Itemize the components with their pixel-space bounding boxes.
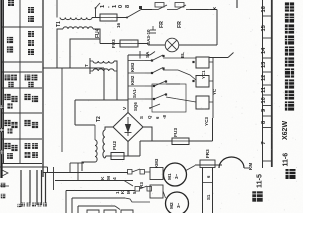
- table cell text col2 row4 (feed): [25, 75, 38, 88]
- label YC1: [201, 70, 206, 79]
- wire YC right bus: [209, 58, 213, 118]
- wire coil2 step to FU1: [99, 39, 101, 44]
- label SQ6-8: [139, 115, 167, 119]
- clutch YC2: [196, 76, 209, 88]
- scan noise: [45, 1, 297, 211]
- fuse FU3: [168, 138, 194, 145]
- SQ column crossbar: [203, 182, 213, 184]
- socket XS marks: [150, 26, 156, 33]
- wire rail y100: [75, 99, 128, 101]
- clutch YC1: [196, 57, 209, 68]
- label KM3 rung1: [130, 62, 135, 72]
- label KM5: [115, 190, 137, 194]
- transformer T2 vertical primary: [95, 125, 97, 162]
- thermal contact FR2: [173, 3, 190, 10]
- table cell text col1 row4 (worktable): [5, 75, 17, 88]
- transformer T1 primary winding: [60, 18, 92, 20]
- fuse FU4: [96, 14, 121, 21]
- wire cam right: [244, 167, 250, 169]
- table cell text col1 row1: [8, 0, 14, 6]
- table cell text col1 row5: [4, 94, 17, 109]
- label R3: [139, 182, 144, 188]
- left edge cut chars: [0, 105, 4, 154]
- table cell text col2 row6: [24, 120, 38, 128]
- label EL: [180, 52, 185, 58]
- wire phase drop 4: [41, 170, 43, 205]
- branch1 link wires: [124, 172, 164, 186]
- label FR3: [205, 149, 210, 158]
- wire FR2 to right corner: [190, 9, 217, 11]
- wire SA3 to FR contacts: [141, 9, 152, 11]
- page left border: [0, 0, 2, 178]
- thermal element FR3 box: [185, 160, 222, 171]
- wire ladder rung1: [128, 60, 145, 62]
- wire bridge top lead: [127, 100, 129, 113]
- label FU2: [112, 141, 118, 150]
- caption figure 11-5: [252, 174, 263, 202]
- label T2a: [84, 64, 89, 67]
- contactor box KM5: [150, 185, 163, 198]
- wire phase drop 1: [20, 170, 22, 207]
- lamp EL: [165, 38, 179, 52]
- transformer T2 vertical secondary: [103, 130, 105, 158]
- wire bottom rail 2: [43, 172, 128, 174]
- wire bottom rail step: [47, 167, 49, 173]
- label FR2: [177, 21, 183, 28]
- fuse FU1: [116, 40, 142, 47]
- wire main left bus: [42, 0, 44, 177]
- wire right drop to lamp row: [216, 10, 218, 46]
- label SQ6 rung4: [133, 102, 138, 111]
- wire T2b secondary bottom lead: [105, 156, 111, 158]
- label KM4: [100, 176, 118, 180]
- transformer T2 primary winding: [90, 61, 114, 63]
- table cell text col1 row6 (spindle): [4, 120, 17, 134]
- column numbers 16-7: [261, 6, 267, 144]
- wire phase stub 6: [53, 167, 55, 190]
- rectifier bridge VC: [113, 113, 143, 142]
- label FR1: [159, 21, 165, 28]
- label YC3: [204, 117, 209, 126]
- wire winding lead corners: [70, 163, 84, 181]
- contact KM3 rung1: [145, 55, 196, 61]
- contact KM5: [135, 186, 152, 191]
- wire bridge right lead: [143, 127, 152, 141]
- contact below SQ6: [149, 104, 160, 109]
- wire lamp row right: [179, 44, 217, 46]
- label 1-108 terminal: [100, 5, 131, 8]
- table cell text col2 row7 (feed): [25, 143, 38, 158]
- label S1 in column: [206, 194, 211, 200]
- contact terminal squares ladder: [151, 55, 195, 100]
- label T1: [56, 21, 62, 27]
- column strip verticals: [263, 0, 272, 168]
- label SA4: [145, 51, 150, 58]
- table cell text col2 row5 (speed): [24, 94, 38, 102]
- label 16: [116, 22, 121, 28]
- motor M2: [166, 192, 189, 215]
- column strip dividers: [263, 16, 272, 161]
- clutch YC3: [196, 96, 209, 109]
- label YC2: [212, 88, 217, 95]
- wire T2a right bus down: [114, 61, 117, 100]
- wire T1 to FU4: [92, 17, 100, 19]
- wire bottom rail 6: [78, 206, 120, 213]
- motor M1: [164, 163, 187, 186]
- wire ladder rung4: [128, 98, 145, 100]
- label KM2 rung2: [130, 75, 135, 85]
- wire x75 drop: [74, 100, 76, 125]
- wire x104 drop: [103, 68, 105, 100]
- wire SQ column right: [212, 168, 214, 214]
- wire ladder top arrow: [128, 51, 155, 59]
- wire T1 primary top lead: [56, 0, 58, 18]
- wire bottom rail 4: [66, 191, 135, 214]
- label SA at top right: [212, 6, 217, 10]
- caption figure 11-6 X62W: [282, 2, 295, 179]
- wire ladder rung2: [128, 72, 145, 74]
- wire bottom rail 5: [72, 198, 150, 213]
- wire T1 secondary right lead step: [70, 29, 100, 68]
- label T2: [96, 116, 102, 122]
- wire T2b left bottom lead: [82, 162, 95, 171]
- wire to FU1: [100, 43, 120, 45]
- label KM3 riser: [154, 158, 159, 168]
- wire phase drop 2: [29, 170, 31, 205]
- wire phase drop 5: [45, 173, 47, 206]
- transformer T1 secondary winding: [63, 27, 93, 29]
- wire y141 to FU3: [140, 140, 172, 142]
- wire T1 secondary left lead: [57, 29, 63, 68]
- label SA1 rung3: [132, 87, 137, 98]
- wire bottom rail 1: [0, 166, 48, 168]
- wire top stub: [236, 0, 238, 8]
- label FU4: [95, 28, 101, 38]
- wire T2a left link: [89, 58, 91, 74]
- label 6 in column: [206, 175, 211, 178]
- table cell text col2 row1 (lighting): [28, 7, 34, 22]
- wire FU1 to lamp row: [138, 44, 148, 46]
- wire ladder left rail: [127, 55, 129, 112]
- table horizontal dividers: [2, 27, 42, 164]
- wire T2b secondary top lead: [105, 127, 113, 130]
- limit switch SQ1 cam: [219, 157, 244, 168]
- label FU3: [173, 128, 179, 137]
- wire SQ column left: [202, 168, 204, 214]
- label KM near cam: [248, 163, 253, 170]
- wire ladder rung3: [128, 85, 145, 87]
- switch SA3 blade: [126, 6, 142, 19]
- wire FU2 right to riser: [124, 141, 140, 156]
- wire x62 drop: [61, 68, 63, 152]
- branch stub with contact tick: [95, 3, 100, 18]
- switch SA1 box: [152, 84, 186, 112]
- thermal contact FR1: [152, 3, 173, 10]
- terminal blobs bottom: [17, 203, 47, 208]
- wire rail y68: [43, 67, 104, 69]
- wire y125 to T2b: [75, 124, 95, 126]
- left edge marks: [0, 170, 9, 198]
- wire YC1 top out: [209, 53, 234, 58]
- wire phase drop 3: [36, 170, 38, 205]
- wire FU4 to SA3: [117, 17, 127, 19]
- transformer T2 secondary winding: [90, 69, 114, 71]
- fuse FU2: [106, 153, 128, 160]
- wire FU3 to right bus: [189, 118, 213, 141]
- label SA3-10: [146, 29, 151, 45]
- label VC: [122, 106, 128, 110]
- wire bridge bottom lead: [127, 142, 129, 157]
- contact KM4: [128, 169, 151, 174]
- table cell text col1 row7 (power): [4, 143, 17, 159]
- table cell text col2 row2 (lifting table): [28, 31, 34, 55]
- wire branch2 to motor: [163, 191, 166, 198]
- wire bottom rail 3: [55, 180, 133, 182]
- table outer/grid verticals: [4, 0, 21, 164]
- contact SQ6 rung4: [145, 94, 196, 102]
- contact KM2 rung2: [145, 68, 196, 81]
- table cell text col1 row2: [7, 37, 13, 53]
- cut components bottom edge: [87, 210, 133, 213]
- contactor box KM4: [150, 168, 163, 180]
- contact SA1 rung3: [145, 81, 180, 86]
- label FU1: [111, 39, 116, 48]
- wire lamp row left: [148, 44, 165, 46]
